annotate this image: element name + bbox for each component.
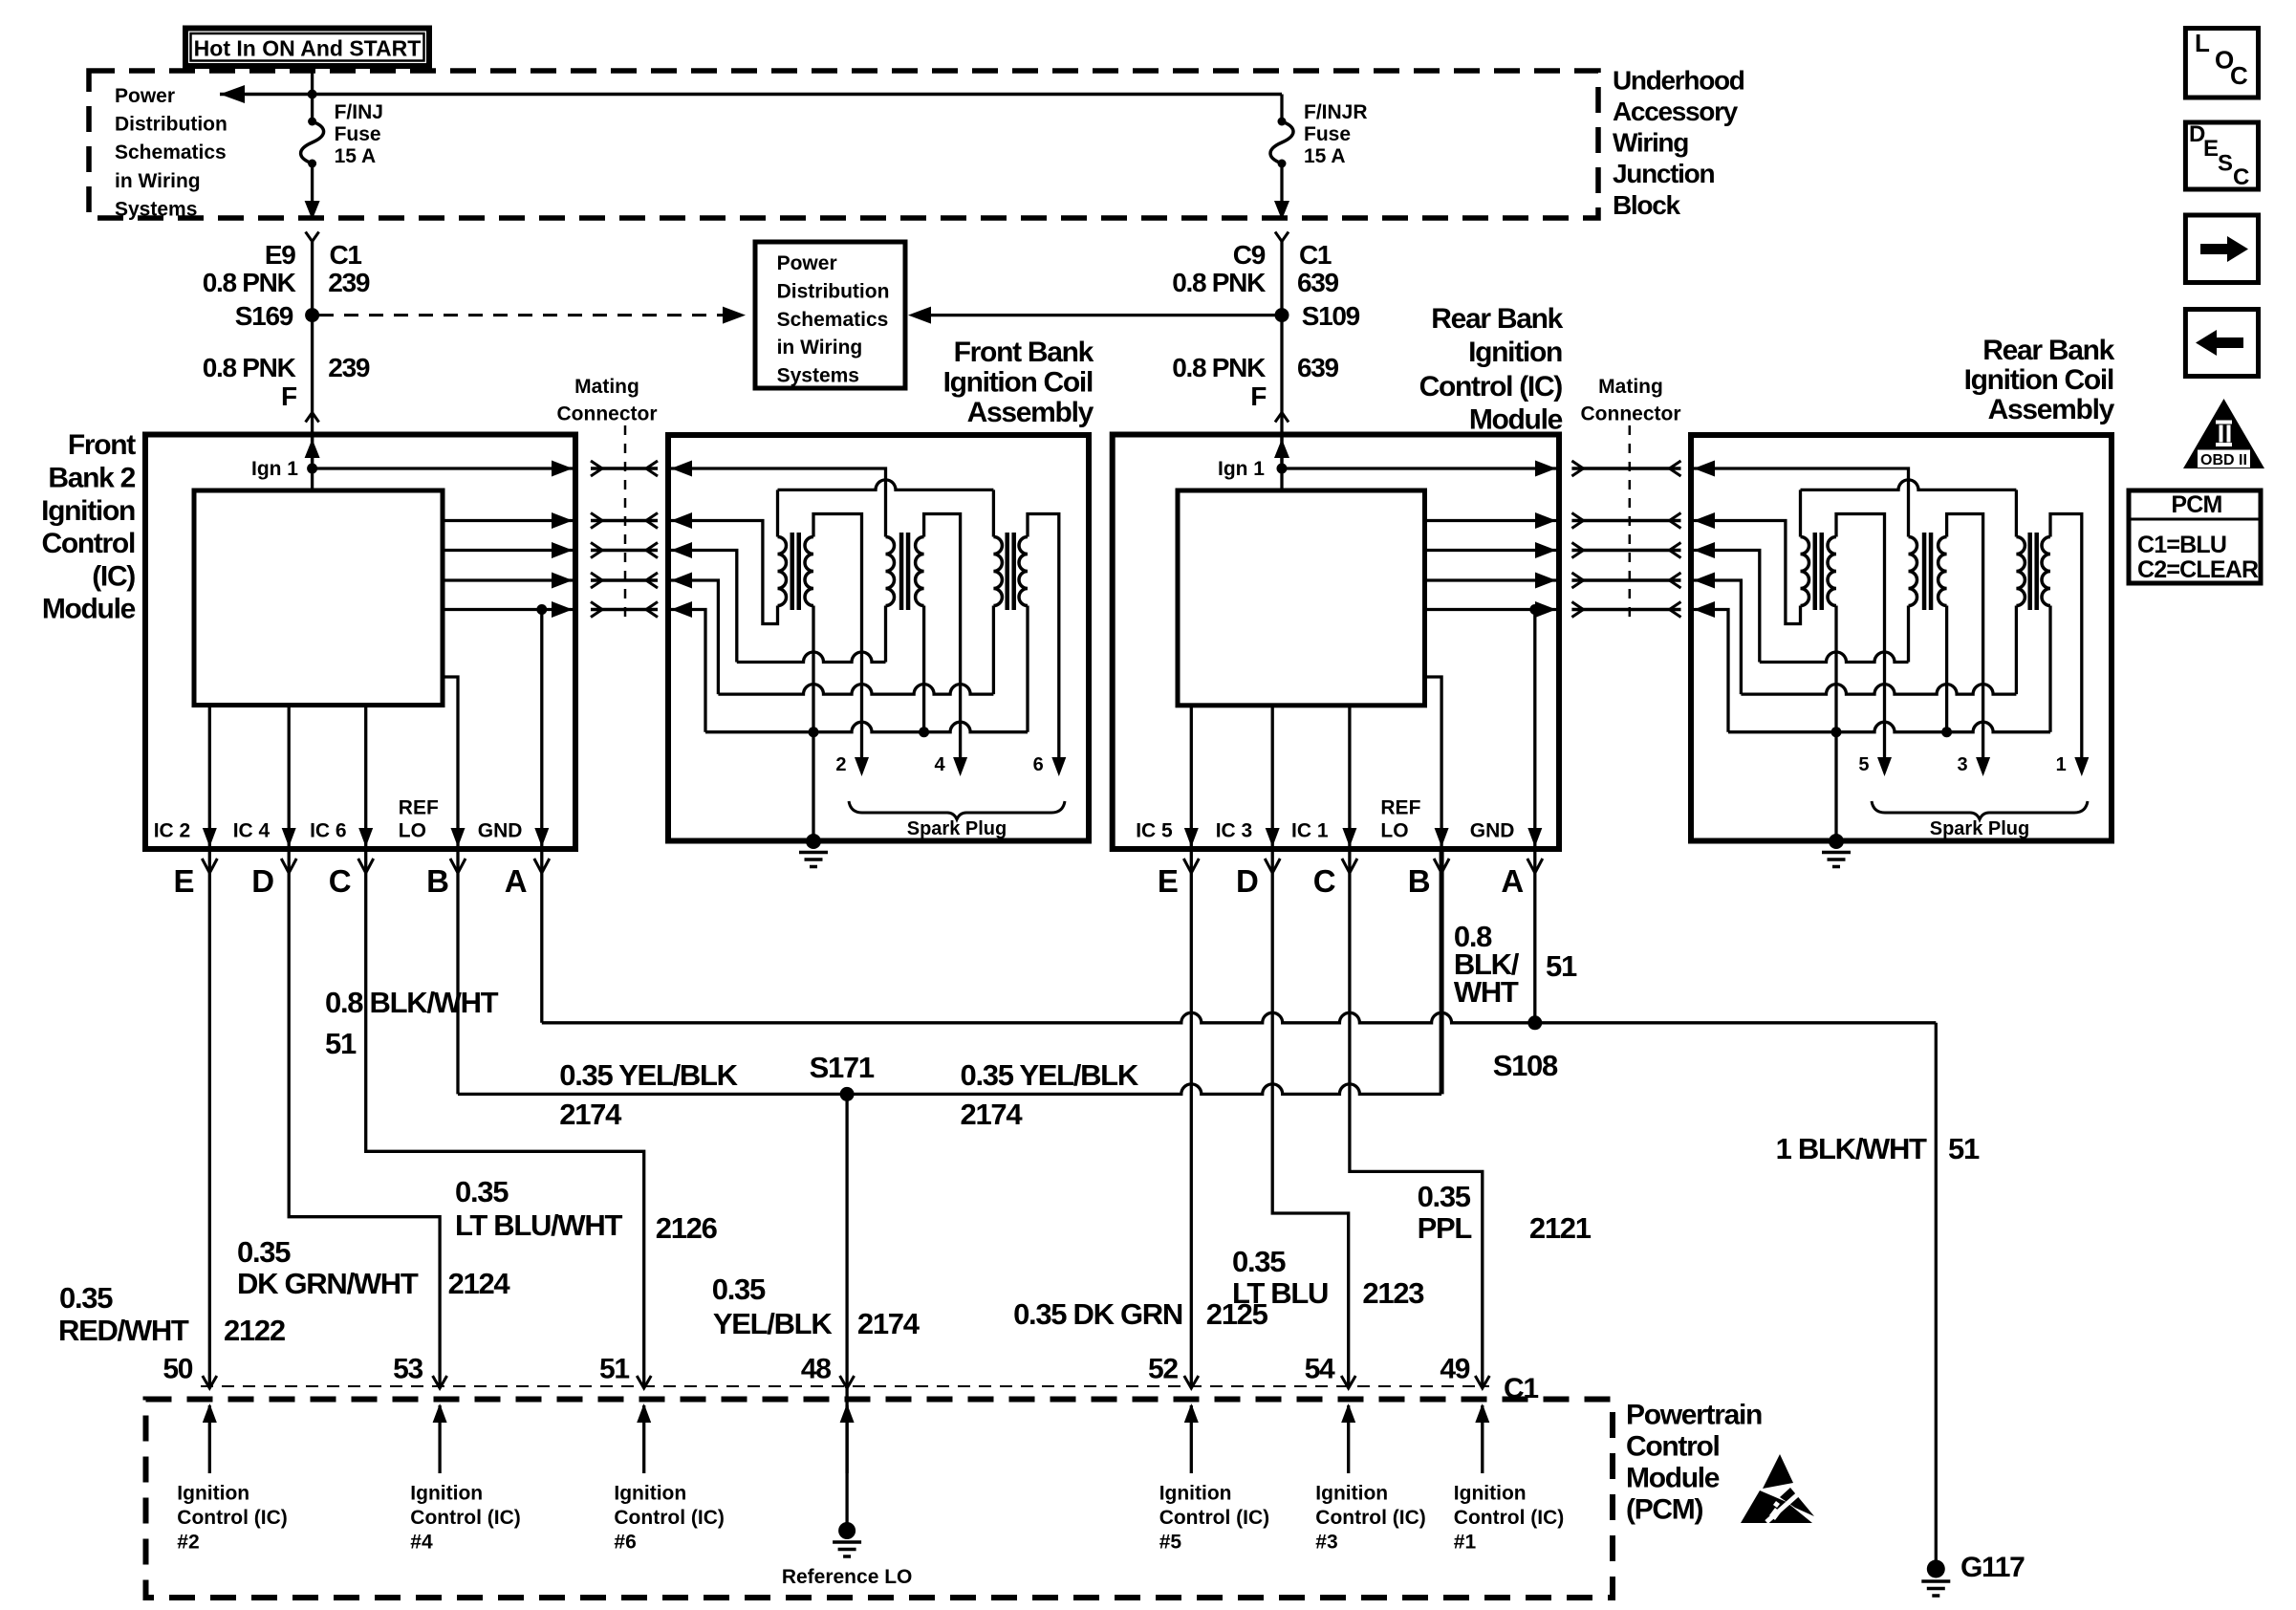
wire IC 4 front pin D to PCM 53 (0.35 DK GRN/WHT 2124)	[289, 849, 440, 1388]
ignition coil transformer T3	[2016, 533, 2050, 610]
svg-text:Reference LO: Reference LO	[782, 1566, 913, 1588]
svg-text:2174: 2174	[857, 1307, 921, 1340]
wires IC outputs down to pins E D C	[1184, 706, 1357, 847]
wire secondary T1 to spark plug lead	[813, 514, 862, 766]
svg-text:A: A	[505, 863, 527, 899]
svg-text:2174: 2174	[559, 1098, 622, 1131]
svg-text:LO: LO	[1380, 819, 1408, 841]
svg-text:GND: GND	[1470, 819, 1515, 841]
svg-text:Connector: Connector	[557, 403, 658, 425]
wire IC 6 front pin C to PCM 51 (0.35 LT BLU/WHT 2126)	[366, 849, 644, 1388]
svg-text:0.35 YEL/BLK: 0.35 YEL/BLK	[961, 1058, 1139, 1092]
svg-text:Wiring: Wiring	[1613, 128, 1688, 158]
svg-text:F/INJ: F/INJ	[335, 101, 383, 123]
svg-text:639: 639	[1297, 353, 1339, 382]
wire REF LO jog to pin B	[1425, 677, 1442, 847]
ignition coil transformer T2	[1909, 533, 1947, 610]
wire IC feed to T1 primary	[671, 521, 778, 624]
svg-text:Systems: Systems	[115, 198, 197, 220]
junction dots on secondary bus	[1831, 727, 1842, 737]
icon forward arrow box	[2185, 215, 2258, 283]
svg-text:0.8 PNK: 0.8 PNK	[203, 268, 296, 297]
svg-text:PCM: PCM	[2171, 491, 2221, 518]
label Mating Connector	[557, 376, 658, 425]
ESD sensitive symbol	[1741, 1454, 1814, 1523]
svg-text:51: 51	[1948, 1132, 1980, 1165]
svg-text:51: 51	[599, 1353, 629, 1384]
svg-text:Ignition Coil: Ignition Coil	[1964, 364, 2113, 396]
wire labels left group	[58, 1175, 718, 1347]
svg-text:Accessory: Accessory	[1613, 97, 1739, 126]
ground drop from secondary bus	[812, 732, 814, 841]
wire secondary T1 to spark plug lead	[1836, 514, 1885, 766]
svg-text:Control: Control	[41, 528, 135, 559]
wire REF LO jog to pin B	[443, 677, 458, 847]
wire S109 to Power Distribution box	[913, 314, 1282, 316]
svg-text:0.8 PNK: 0.8 PNK	[1172, 268, 1266, 297]
junction dots on secondary bus	[809, 727, 819, 737]
ground symbol of coil assembly	[1822, 851, 1851, 855]
wire Ign 1 to module right edge	[313, 467, 574, 469]
svg-text:Fuse: Fuse	[335, 123, 381, 145]
svg-text:S108: S108	[1493, 1049, 1558, 1082]
primary bus wire with hop	[778, 480, 994, 490]
connector pins E D C B A	[174, 859, 550, 899]
svg-text:Assembly: Assembly	[1988, 394, 2115, 425]
label Rear Bank Ignition Control (IC) Module	[1419, 303, 1564, 436]
svg-text:Spark Plug: Spark Plug	[907, 818, 1007, 839]
coil assembly input arrows	[1694, 461, 1715, 619]
svg-text:REF: REF	[399, 797, 439, 819]
underhood junction block (dashed box)	[89, 71, 1598, 218]
pin name labels IC/REF LO/GND	[154, 797, 523, 842]
svg-text:#4: #4	[410, 1532, 433, 1554]
PCM pin numbers	[162, 1353, 1538, 1404]
icon OBD II triangle	[2183, 399, 2264, 468]
svg-text:S: S	[2218, 151, 2233, 177]
svg-text:C: C	[2230, 61, 2248, 90]
labels C9 C1 0.8 PNK 639	[1172, 240, 1338, 297]
svg-text:Underhood: Underhood	[1613, 65, 1744, 95]
labels 0.8 PNK 239 (lower)	[203, 353, 370, 411]
wire IC feed to T2 primary return	[1694, 551, 1760, 663]
svg-text:0.35: 0.35	[237, 1235, 291, 1269]
svg-text:D: D	[1236, 863, 1258, 899]
svg-text:Ignition: Ignition	[614, 1482, 686, 1504]
primary bus wire with hop	[1801, 480, 2017, 490]
svg-text:Power: Power	[777, 252, 837, 274]
svg-text:YEL/BLK: YEL/BLK	[713, 1307, 833, 1340]
svg-text:Fuse: Fuse	[1304, 123, 1351, 145]
svg-text:(IC): (IC)	[92, 560, 135, 592]
svg-text:Junction: Junction	[1613, 159, 1714, 188]
svg-text:D: D	[251, 863, 273, 899]
wire IC feed to T3 primary return	[671, 580, 718, 694]
svg-text:5: 5	[1858, 754, 1869, 775]
IC module inner device box	[194, 490, 443, 706]
svg-text:Module: Module	[42, 594, 136, 625]
wire secondary T3 to spark plug lead	[1028, 514, 1059, 766]
svg-text:F/INJR: F/INJR	[1304, 101, 1368, 123]
svg-text:0.35: 0.35	[1418, 1180, 1471, 1213]
svg-text:0.35: 0.35	[1232, 1245, 1286, 1278]
mating connector dashed line	[624, 425, 627, 623]
PCM input labels Ignition Control	[177, 1482, 1564, 1553]
svg-text:2124: 2124	[448, 1267, 511, 1300]
ignition coil assembly box	[1691, 435, 2112, 841]
svg-text:0.8 PNK: 0.8 PNK	[1172, 353, 1266, 382]
svg-text:Module: Module	[1626, 1463, 1720, 1494]
svg-text:Mating: Mating	[574, 376, 639, 398]
svg-text:E: E	[1158, 863, 1178, 899]
fuse F/INJR 15 A	[1270, 95, 1368, 221]
label Front Bank Ignition Coil Assembly	[943, 337, 1094, 428]
svg-text:1: 1	[2056, 754, 2067, 775]
svg-text:6: 6	[1033, 754, 1044, 775]
svg-text:0.35: 0.35	[712, 1273, 766, 1306]
svg-text:Module: Module	[1469, 404, 1563, 436]
svg-text:639: 639	[1297, 268, 1339, 297]
wire labels right group	[1013, 920, 1980, 1331]
wires device outputs to module right edge	[443, 512, 574, 589]
wire GND feed to secondary common bus	[1694, 610, 1728, 732]
svg-text:F: F	[281, 381, 297, 411]
wires secondary bottoms to bus	[812, 606, 814, 732]
svg-text:C9: C9	[1233, 240, 1266, 270]
svg-text:S171: S171	[810, 1051, 875, 1084]
ground symbol of coil assembly	[799, 851, 828, 855]
svg-text:Ignition: Ignition	[1454, 1482, 1527, 1504]
splice S169	[305, 308, 319, 322]
wire from Hot In box to bus	[311, 64, 314, 96]
svg-text:Control (IC): Control (IC)	[1419, 371, 1563, 402]
svg-text:0.35 YEL/BLK: 0.35 YEL/BLK	[559, 1058, 738, 1092]
ignition coil transformer T3	[993, 533, 1028, 610]
wire Ign 1 to module right edge	[1282, 467, 1557, 469]
svg-text:F: F	[1250, 381, 1267, 411]
wire labels center group	[325, 986, 1139, 1340]
icon back arrow box	[2185, 310, 2258, 377]
svg-text:3: 3	[1957, 754, 1967, 775]
svg-text:51: 51	[1546, 949, 1577, 983]
wires IC outputs down to pins E D C	[203, 706, 373, 848]
wire IC 1 rear pin C to PCM 49 (0.35 PPL 2121)	[1350, 849, 1483, 1388]
wire GND down to pin A	[540, 610, 543, 848]
wire Ign 1 feed to coil T2 primary	[671, 468, 886, 537]
svg-text:51: 51	[325, 1027, 357, 1060]
svg-text:LO: LO	[399, 819, 426, 841]
connector F at rear module	[1275, 413, 1289, 423]
svg-text:IC 5: IC 5	[1136, 819, 1173, 841]
svg-text:Block: Block	[1613, 190, 1680, 220]
svg-text:Ign 1: Ign 1	[251, 458, 298, 480]
wire GND feed to secondary common bus	[671, 610, 705, 732]
connector F at front module	[306, 413, 319, 423]
svg-text:B: B	[426, 863, 448, 899]
svg-text:OBD II: OBD II	[2200, 452, 2247, 468]
svg-text:E9: E9	[265, 240, 295, 270]
svg-text:53: 53	[393, 1353, 422, 1384]
wire F into module / Ign 1 feed	[1280, 435, 1283, 491]
icon LOC box	[2185, 29, 2258, 98]
svg-text:Hot In ON And START: Hot In ON And START	[194, 36, 422, 61]
svg-text:Distribution: Distribution	[115, 114, 227, 136]
svg-text:S109: S109	[1302, 301, 1360, 331]
label Underhood Accessory Wiring Junction Block	[1613, 65, 1744, 219]
svg-text:in Wiring: in Wiring	[115, 170, 201, 192]
svg-text:(PCM): (PCM)	[1626, 1494, 1702, 1526]
svg-text:G117: G117	[1960, 1552, 2025, 1583]
wire rear pin B to S171	[1440, 849, 1444, 1094]
svg-text:0.35: 0.35	[59, 1281, 113, 1315]
wire IC 3 rear pin D to PCM 54 (0.35 LT BLU 2123)	[1272, 849, 1349, 1388]
svg-text:#5: #5	[1159, 1532, 1182, 1554]
svg-text:DK GRN/WHT: DK GRN/WHT	[237, 1267, 419, 1300]
svg-text:C: C	[329, 863, 351, 899]
wires secondary bottoms to bus	[1834, 606, 1837, 732]
svg-text:15 A: 15 A	[1304, 145, 1346, 167]
IC module outer box	[1113, 435, 1559, 850]
svg-text:#6: #6	[614, 1532, 636, 1554]
wire IC feed to T1 primary	[1694, 521, 1801, 624]
IC module inner device box	[1178, 490, 1425, 706]
svg-text:239: 239	[328, 353, 370, 382]
mating connector dashed line	[1629, 425, 1632, 623]
connector pins E D C B A	[1158, 859, 1543, 899]
svg-text:Front: Front	[68, 429, 136, 461]
reference box Power Distribution Schematics in Wiring Systems	[755, 242, 905, 388]
node Ign 1	[307, 464, 317, 474]
svg-text:Systems: Systems	[777, 365, 859, 387]
ground Reference LO	[838, 1522, 856, 1539]
splice S108	[1527, 1015, 1542, 1030]
svg-text:C: C	[2233, 164, 2249, 190]
mating connector wire pairs	[1571, 461, 1680, 618]
PCM connector pins	[203, 1376, 1490, 1388]
svg-text:WHT: WHT	[1454, 975, 1519, 1009]
svg-text:49: 49	[1440, 1353, 1469, 1384]
svg-text:Ignition: Ignition	[1468, 337, 1562, 368]
svg-text:Control (IC): Control (IC)	[1159, 1507, 1269, 1529]
svg-text:Ignition: Ignition	[1315, 1482, 1388, 1504]
svg-text:#3: #3	[1315, 1532, 1337, 1554]
connector E9/C1	[306, 232, 319, 242]
PCM input arrows	[203, 1403, 1490, 1473]
junction block note text	[115, 85, 227, 220]
svg-text:4: 4	[934, 754, 945, 775]
svg-text:IC 6: IC 6	[310, 819, 347, 841]
PCM connector C1 dashed line	[201, 1385, 1489, 1387]
ignition coil transformer T2	[886, 533, 924, 610]
svg-text:50: 50	[162, 1353, 192, 1384]
svg-text:Ignition: Ignition	[41, 495, 135, 527]
svg-text:IC 4: IC 4	[233, 819, 271, 841]
svg-text:B: B	[1408, 863, 1430, 899]
svg-text:2126: 2126	[656, 1211, 718, 1245]
svg-text:Rear Bank: Rear Bank	[1982, 335, 2114, 366]
IC module outer box	[145, 435, 575, 850]
svg-text:Powertrain: Powertrain	[1626, 1400, 1762, 1431]
svg-text:Control (IC): Control (IC)	[1315, 1507, 1425, 1529]
svg-text:Ignition: Ignition	[177, 1482, 249, 1504]
ignition coil assembly box	[668, 435, 1089, 841]
svg-text:Ign 1: Ign 1	[1218, 458, 1265, 480]
svg-text:A: A	[1501, 863, 1523, 899]
wire fuse F/INJ to front IC module (circuit 239)	[311, 242, 314, 468]
wire GND row with junction	[443, 608, 574, 611]
fuse F/INJ 15 A	[301, 95, 383, 221]
svg-text:239: 239	[328, 268, 370, 297]
svg-text:E: E	[2203, 136, 2219, 162]
wire GND front pin A to splice S108 (0.8 BLK/WHT 51)	[540, 849, 543, 1023]
wire IC feed to T3 primary return	[1694, 580, 1741, 694]
svg-text:in Wiring: in Wiring	[777, 337, 863, 359]
dashed reference arrow S169 to Power Distribution box	[319, 314, 726, 316]
wire rear pin A to S108	[1533, 849, 1536, 1023]
svg-text:Mating: Mating	[1598, 376, 1663, 398]
svg-text:Schematics: Schematics	[115, 141, 227, 163]
svg-text:PPL: PPL	[1418, 1211, 1472, 1245]
svg-text:Front Bank: Front Bank	[954, 337, 1094, 368]
svg-text:C1: C1	[330, 240, 362, 270]
svg-text:LT BLU/WHT: LT BLU/WHT	[455, 1208, 622, 1242]
splice S171	[840, 1087, 855, 1101]
node Ign 1	[1277, 464, 1288, 474]
bus wire with left arrow to Power Distribution	[220, 93, 1282, 97]
ground G117	[1927, 1560, 1945, 1578]
svg-text:Ignition Coil: Ignition Coil	[943, 367, 1093, 399]
wire IC 2 front pin E to PCM 50 (0.35 RED/WHT 2122)	[208, 849, 211, 1388]
mating connector wire pairs	[591, 461, 658, 618]
svg-text:IC 3: IC 3	[1216, 819, 1253, 841]
spark plug brace	[849, 801, 1065, 819]
svg-text:C1=BLU: C1=BLU	[2137, 532, 2226, 558]
wire F into module / Ign 1 feed	[311, 435, 314, 491]
svg-text:#2: #2	[177, 1532, 199, 1554]
svg-text:C: C	[1313, 863, 1335, 899]
svg-text:Bank 2: Bank 2	[48, 463, 135, 494]
wire REF LO front pin B to splice S171 (0.35 YEL/BLK 2174)	[456, 849, 459, 1094]
wire secondary T2 to spark plug lead	[1947, 514, 1983, 766]
svg-text:Control (IC): Control (IC)	[614, 1507, 724, 1529]
svg-text:Power: Power	[115, 85, 175, 107]
wire PCM 48 to Reference LO ground	[845, 1388, 848, 1526]
svg-text:0.35: 0.35	[455, 1175, 509, 1208]
wire IC feed to T2 primary return	[671, 551, 737, 663]
label box 'Hot In ON And START'	[185, 29, 429, 67]
svg-text:0.35 DK GRN: 0.35 DK GRN	[1013, 1297, 1182, 1331]
wire S108 to ground G117 (1 BLK/WHT 51)	[1935, 1023, 1938, 1560]
wire secondary T3 to spark plug lead	[2050, 514, 2082, 766]
wire S171 to PCM 48	[845, 1094, 848, 1388]
pin name labels IC/REF LO/GND	[1136, 797, 1514, 842]
svg-text:Control: Control	[1626, 1431, 1720, 1463]
svg-text:Control (IC): Control (IC)	[177, 1507, 287, 1529]
spark plug brace	[1872, 801, 2088, 819]
svg-text:#1: #1	[1454, 1532, 1477, 1554]
svg-text:IC 1: IC 1	[1291, 819, 1329, 841]
icon DESC box	[2185, 121, 2258, 190]
svg-text:L: L	[2195, 29, 2210, 57]
svg-text:Ignition: Ignition	[1159, 1482, 1232, 1504]
ground drop from secondary bus	[1834, 732, 1837, 841]
splice S109	[1275, 308, 1289, 322]
label Mating Connector	[1581, 376, 1681, 425]
label Powertrain Control Module (PCM)	[1626, 1400, 1762, 1526]
svg-text:REF: REF	[1380, 797, 1420, 819]
labels E9 C1 0.8 PNK 239	[203, 240, 370, 297]
svg-text:Spark Plug: Spark Plug	[1930, 818, 2029, 839]
svg-text:C2=CLEAR: C2=CLEAR	[2137, 556, 2259, 583]
svg-text:Distribution: Distribution	[777, 280, 890, 302]
svg-text:Assembly: Assembly	[967, 397, 1094, 428]
svg-text:E: E	[174, 863, 194, 899]
ignition coil transformer T1	[1801, 533, 1837, 610]
svg-text:S169: S169	[235, 301, 293, 331]
svg-text:0.8 BLK/WHT: 0.8 BLK/WHT	[325, 986, 499, 1019]
svg-text:C1: C1	[1299, 240, 1332, 270]
connector C9/C1	[1275, 232, 1289, 242]
svg-text:Connector: Connector	[1581, 403, 1681, 425]
wire GND row with junction	[1425, 608, 1558, 611]
svg-text:Schematics: Schematics	[777, 309, 889, 331]
coil assembly input arrows	[671, 461, 692, 619]
svg-text:52: 52	[1148, 1353, 1178, 1384]
svg-text:2122: 2122	[224, 1314, 285, 1347]
svg-text:Control (IC): Control (IC)	[1454, 1507, 1564, 1529]
wire secondary T2 to spark plug lead	[924, 514, 961, 766]
legend PCM connector colors	[2129, 490, 2261, 583]
svg-text:15 A: 15 A	[335, 145, 377, 167]
labels 0.8 PNK 639 (lower)	[1172, 353, 1338, 411]
svg-text:2121: 2121	[1529, 1211, 1592, 1245]
svg-text:IC 2: IC 2	[154, 819, 191, 841]
svg-text:GND: GND	[478, 819, 523, 841]
ignition coil transformer T1	[778, 533, 814, 610]
wire Ign 1 feed to coil T2 primary	[1694, 468, 1909, 537]
svg-text:2: 2	[835, 754, 846, 775]
svg-text:LT BLU: LT BLU	[1232, 1276, 1328, 1310]
label Rear Bank Ignition Coil Assembly	[1964, 335, 2115, 425]
wire GND down to pin A	[1533, 610, 1536, 848]
svg-text:2174: 2174	[961, 1098, 1024, 1131]
svg-text:RED/WHT: RED/WHT	[58, 1314, 189, 1347]
svg-text:Ignition: Ignition	[410, 1482, 483, 1504]
junction dot at fuse feed	[308, 90, 317, 99]
Powertrain Control Module dashed box	[146, 1400, 1614, 1599]
svg-text:54: 54	[1305, 1353, 1335, 1384]
wire IC 5 rear pin E to PCM 52 (0.35 DK GRN 2125)	[1190, 849, 1193, 1388]
svg-text:1 BLK/WHT: 1 BLK/WHT	[1776, 1132, 1927, 1165]
svg-text:2123: 2123	[1362, 1276, 1424, 1310]
wire fuse F/INJR to rear IC module (circuit 639)	[1280, 242, 1283, 468]
front bank 2 ignition control module label	[41, 429, 136, 625]
svg-text:Rear Bank: Rear Bank	[1431, 303, 1563, 335]
svg-text:Control (IC): Control (IC)	[410, 1507, 520, 1529]
wires device outputs to module right edge	[1425, 512, 1558, 589]
svg-text:48: 48	[801, 1353, 831, 1384]
svg-text:0.8 PNK: 0.8 PNK	[203, 353, 296, 382]
